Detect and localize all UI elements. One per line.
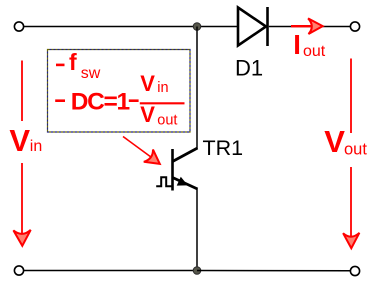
formula box (dashed navy/olive border): [48, 50, 191, 133]
svg-text:out: out: [344, 140, 367, 158]
terminal: output negative (bottom-right open circle): [350, 266, 359, 275]
wire: top rail segment diode cathode to output terminal: [269, 26, 351, 28]
svg-text:DC=1: DC=1: [71, 88, 130, 115]
wire: top rail left segment (input terminal to node A): [24, 26, 197, 28]
terminal: output positive (top-right open circle): [350, 22, 359, 31]
formula text: - fsw (red): [56, 49, 101, 82]
formula text: - DC=1- (red): [55, 99, 65, 102]
annotation arrow: Vout (red, pointing down, right side): [343, 59, 359, 249]
label Iout (red): [293, 29, 326, 60]
transistor TR1: [156, 148, 197, 191]
node B: junction dot at bottom rail / emitter: [193, 267, 201, 275]
svg-text:f: f: [69, 49, 77, 75]
annotation pointer arrow to TR1 (red diagonal): [123, 137, 160, 164]
wire: collector wire node A down to TR1: [196, 27, 198, 150]
svg-text:in: in: [157, 80, 168, 96]
annotation arrow: Vin (red, pointing down, left side): [13, 61, 30, 246]
svg-text:V: V: [9, 123, 30, 158]
svg-text:I: I: [293, 29, 301, 60]
wire: emitter wire TR1 down to node B: [196, 189, 198, 271]
wire: bottom rail left segment: [24, 270, 197, 272]
svg-text:sw: sw: [81, 65, 101, 82]
wire: bottom rail right segment: [197, 270, 350, 272]
annotation arrow: Iout (red, pointing right, top): [291, 18, 323, 34]
svg-text:V: V: [140, 71, 155, 96]
svg-text:V: V: [324, 124, 345, 159]
label Vin (red): [9, 123, 42, 158]
svg-text:out: out: [303, 43, 326, 60]
terminal: input negative (bottom-left open circle): [14, 266, 23, 275]
svg-text:out: out: [157, 112, 177, 128]
formula fraction: Vin over Vout (red): [140, 71, 185, 129]
svg-text:in: in: [30, 138, 42, 155]
diode D1: [238, 7, 268, 46]
svg-text:V: V: [140, 102, 155, 127]
node A: junction dot at top rail / collector: [193, 23, 201, 31]
svg-text:D1: D1: [235, 56, 263, 81]
wire: top rail segment node A to diode anode: [197, 26, 238, 28]
svg-text:TR1: TR1: [203, 136, 244, 160]
label Vout (red): [324, 124, 367, 159]
terminal: input positive (top-left open circle): [14, 22, 23, 31]
